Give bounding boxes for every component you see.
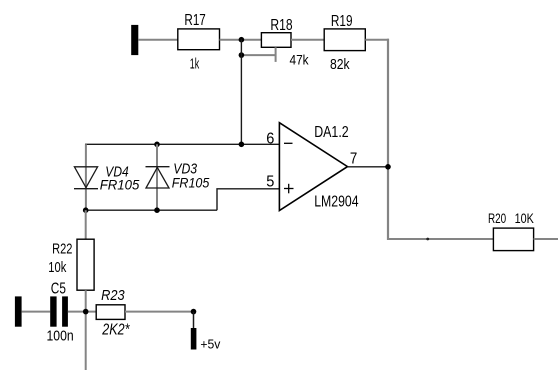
svg-text:5: 5 <box>266 174 274 191</box>
wire <box>68 311 96 313</box>
svg-text:2K2*: 2K2* <box>102 322 131 339</box>
svg-text:100n: 100n <box>47 328 74 345</box>
wire <box>22 311 51 313</box>
wire <box>291 39 324 41</box>
svg-text:82k: 82k <box>330 56 350 73</box>
wire <box>138 39 178 41</box>
resistor R19 <box>324 13 365 73</box>
resistor R22 <box>48 239 94 290</box>
node junction dot <box>83 309 89 315</box>
wire (vertical feedback) <box>387 39 389 240</box>
capacitor C5 <box>47 280 74 344</box>
wire (vertical to pin 6) <box>240 39 242 144</box>
wire (pin 6 stub) <box>241 143 279 145</box>
wire (VD4 branch) <box>85 144 87 210</box>
wire (R22 bottom lead) <box>85 290 87 311</box>
trimmer resistor R18 <box>261 17 309 67</box>
wire (diode bottom rail) <box>86 209 217 211</box>
diode VD3 <box>146 161 210 191</box>
node junction dot <box>239 52 245 58</box>
svg-text:C5: C5 <box>51 280 66 297</box>
wire (R22 top lead) <box>85 210 87 239</box>
diode VD4 <box>74 163 139 192</box>
wire (to R20) <box>387 238 493 240</box>
svg-text:6: 6 <box>266 131 274 148</box>
wire <box>365 39 389 41</box>
op-amp U1 DA1.2 <box>266 123 358 211</box>
power terminal +5v <box>191 328 221 351</box>
node tick <box>426 238 429 241</box>
svg-text:FR105: FR105 <box>100 177 140 193</box>
svg-text:R18: R18 <box>270 17 292 34</box>
svg-text:R23: R23 <box>101 287 125 304</box>
svg-text:DA1.2: DA1.2 <box>314 124 349 141</box>
wire (down to edge) <box>85 312 87 370</box>
terminal bar (top-left input) <box>131 25 138 55</box>
wire (output pin 7) <box>348 166 389 168</box>
wire (VD3 branch) <box>156 144 158 210</box>
svg-text:R20: R20 <box>488 211 506 226</box>
node junction dot (output) <box>385 164 391 170</box>
node junction dot <box>83 207 89 213</box>
svg-text:FR105: FR105 <box>172 174 210 190</box>
wire (wiper tap) <box>241 54 275 56</box>
svg-text:7: 7 <box>350 150 357 167</box>
resistor R17 <box>178 12 220 72</box>
node junction dot <box>154 207 160 213</box>
wire <box>125 311 194 313</box>
wire (R20 to edge) <box>534 238 558 240</box>
wire <box>220 39 262 41</box>
svg-text:10k: 10k <box>48 259 66 276</box>
svg-text:R19: R19 <box>331 13 353 30</box>
svg-text:47k: 47k <box>290 52 310 68</box>
node junction dot <box>154 142 160 148</box>
svg-text:LM2904: LM2904 <box>314 193 358 210</box>
svg-text:10K: 10K <box>515 211 534 226</box>
node junction dot <box>239 37 245 43</box>
wire (to pin 5) <box>217 189 279 210</box>
wire (diode top rail) <box>85 143 241 145</box>
R18 wiper <box>275 47 277 62</box>
svg-text:R22: R22 <box>52 241 72 258</box>
node junction dot <box>191 309 197 315</box>
svg-text:+5v: +5v <box>200 336 220 351</box>
wire (to +5v bar) <box>193 312 195 328</box>
resistor R20 <box>488 211 534 251</box>
node junction dot <box>239 142 245 148</box>
svg-text:R17: R17 <box>184 12 205 29</box>
terminal bar (bottom-left input) <box>15 296 22 326</box>
resistor R23 <box>96 287 130 339</box>
svg-text:1k: 1k <box>190 56 200 73</box>
